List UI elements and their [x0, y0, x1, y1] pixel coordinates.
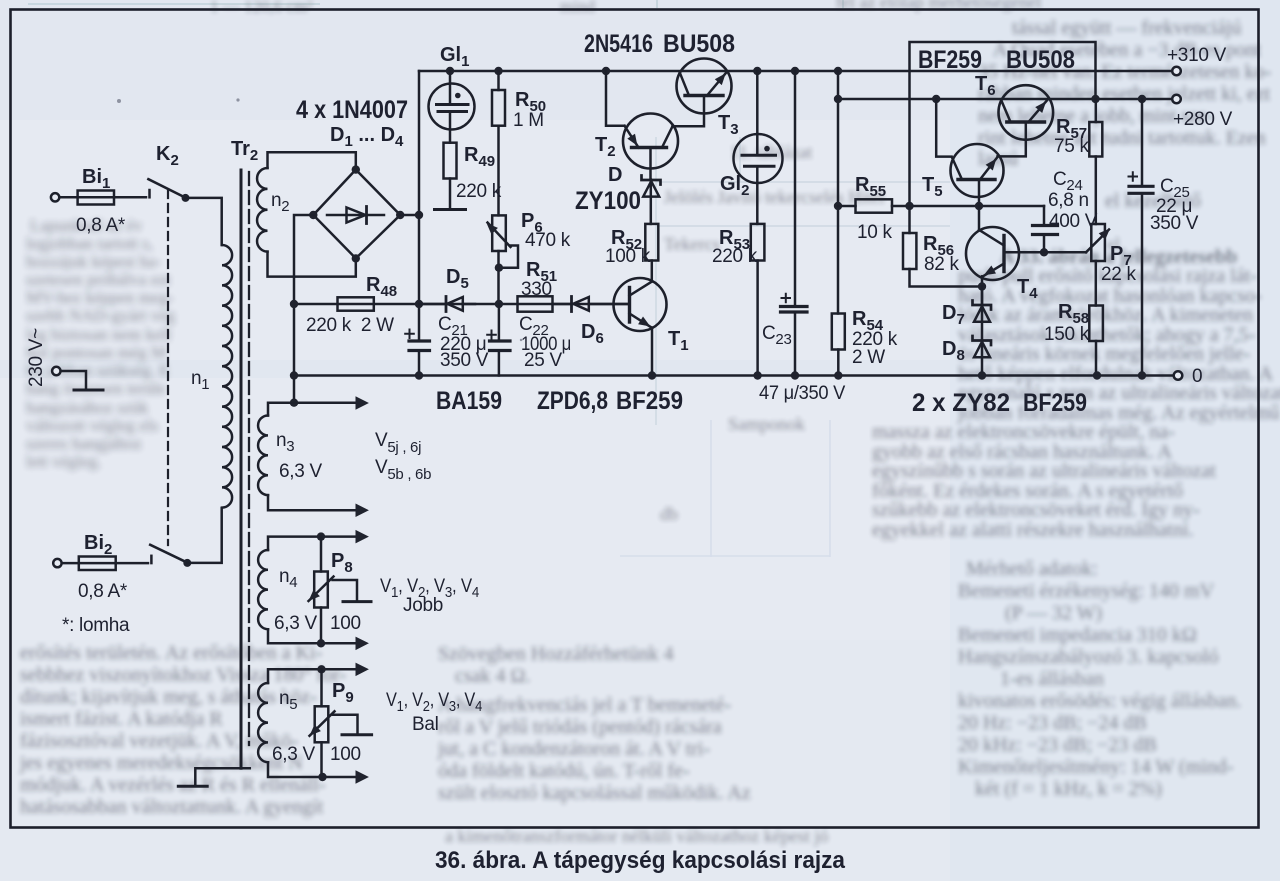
arrow heater 5: [356, 663, 369, 677]
resistor R49: [444, 143, 457, 179]
resistor R51: [518, 296, 553, 311]
terminal +280 V: [1172, 95, 1181, 104]
transformer winding n2: [257, 168, 267, 252]
svg-text:ről a V jelű triódás (pentód): ről a V jelű triódás (pentód) rácsára: [438, 716, 722, 738]
specks: [117, 98, 522, 341]
svg-text:szeres hangjához: szeres hangjához: [26, 434, 142, 453]
svg-text:20 kHz: −23 dB; −23 dB: 20 kHz: −23 dB; −23 dB: [958, 734, 1157, 756]
svg-text:leg biztosan nem kell: leg biztosan nem kell: [26, 325, 171, 344]
svg-text:BU508: BU508: [663, 30, 735, 58]
svg-text:legjobban tartott s,: legjobban tartott s,: [26, 234, 153, 253]
svg-text:2 x ZY82: 2 x ZY82: [912, 389, 1010, 417]
svg-text:BU508: BU508: [1006, 46, 1075, 74]
wire riser x419: [418, 71, 421, 376]
node mid x499: [495, 300, 503, 308]
wire n3 top to arrow: [268, 403, 355, 416]
chassis below R49: [435, 179, 466, 210]
svg-text:400 V: 400 V: [1049, 211, 1098, 232]
svg-text:jut, a C kondenzátoron át. A V: jut, a C kondenzátoron át. A V tri-: [437, 738, 710, 760]
wire n2 top to bridge: [268, 152, 356, 169]
svg-text:változott végleg els: változott végleg els: [26, 416, 158, 435]
svg-text:ZY100: ZY100: [575, 187, 641, 215]
svg-text:Kimenőteljesítmény: 14 W (mind: Kimenőteljesítmény: 14 W (mind-: [958, 756, 1233, 778]
svg-text:220 k 2 W: 220 k 2 W: [306, 315, 394, 336]
svg-text:0,8 A*: 0,8 A*: [76, 215, 126, 236]
svg-text:egyszínűbb s során az ultralin: egyszínűbb s során az ultralineáris vált…: [872, 460, 1216, 482]
wire neutral stub: [61, 371, 103, 390]
svg-text:230 V~: 230 V~: [26, 328, 47, 387]
svg-text:MV-hez képpen meg-: MV-hez képpen meg-: [26, 288, 174, 307]
winding n5: [258, 683, 268, 762]
wire bridge right corner to +rail riser: [400, 211, 423, 219]
resistor R50: [492, 71, 505, 215]
svg-text:a kimenőtranszformátor nélküli: a kimenőtranszformátor nélküli változath…: [445, 826, 828, 846]
svg-text:mind: mind: [560, 0, 595, 16]
arrow heater 1: [356, 396, 369, 410]
node rail x450: [446, 67, 454, 75]
svg-text:6,3 V: 6,3 V: [274, 613, 317, 634]
terminal 0 V: [1174, 371, 1183, 380]
svg-text:350 V: 350 V: [440, 350, 489, 371]
switch K2: [148, 179, 189, 202]
svg-text:0,8 A*: 0,8 A*: [78, 581, 128, 602]
svg-text:6,3 V: 6,3 V: [272, 744, 315, 765]
svg-text:Bal: Bal: [412, 714, 439, 735]
wire n4 top to arrow: [268, 532, 355, 550]
potentiometer P9: [310, 669, 372, 777]
resistor R56: [903, 202, 982, 287]
right column mid text: [872, 190, 1280, 541]
wire n2 bottom to bridge: [268, 252, 356, 277]
svg-text:4 x 1N4007: 4 x 1N4007: [296, 96, 408, 124]
svg-text:Szövegben Hozzáférhetünk: Szövegben Hozzáférhetünk 4: [438, 643, 673, 665]
node rail x795 / capacitor C23: [781, 67, 808, 380]
svg-text:rint lehetne azt tudni tartott: rint lehetne azt tudni tartottuk. Ezen: [978, 127, 1266, 149]
svg-text:ös lineáris körnek megfelelően: ös lineáris körnek megfelelően jelle-: [958, 343, 1250, 365]
resistor R54: [832, 314, 845, 380]
resistor R55: [838, 199, 1044, 212]
potentiometer P7: [1086, 224, 1110, 306]
wire bridge left corner down: [294, 215, 313, 403]
wire n4 bottom to arrow: [268, 629, 355, 647]
transistor T2: [623, 114, 678, 180]
terminal Bi1 input: [51, 193, 59, 201]
svg-text:BF259: BF259: [918, 46, 982, 74]
svg-text:25 V: 25 V: [524, 350, 563, 371]
transformer core solid line: [240, 170, 243, 768]
wire Bi2 switch to n1 bottom: [187, 508, 221, 563]
diode D5: [419, 297, 475, 312]
svg-text:22 k: 22 k: [1101, 264, 1137, 285]
bridge rectifier D1..D4: [309, 165, 404, 262]
svg-text:Jobb: Jobb: [403, 595, 443, 616]
wire Bi1 to K2: [114, 190, 150, 197]
svg-text:+310 V: +310 V: [1167, 45, 1227, 66]
svg-text:szült elosztó kapcsolással műk: szült elosztó kapcsolással működik. Az: [438, 782, 751, 804]
zener D8: [973, 336, 992, 380]
node dots x294: [290, 300, 298, 407]
svg-text:ha jobban szükség. E: ha jobban szükség. E: [26, 361, 170, 380]
svg-text:hol pontosan még M: hol pontosan még M: [26, 343, 166, 362]
zener ZY100: [642, 176, 661, 224]
wire Bi2 to switch: [116, 556, 152, 563]
linkage K2-Bi2 dashed: [167, 190, 169, 545]
svg-text:egyekkel az alatti részekre ha: egyekkel az alatti részekre használhatni…: [872, 519, 1194, 541]
svg-text:lassú: lassú: [978, 148, 1018, 170]
svg-text:150 k: 150 k: [1044, 324, 1090, 345]
potentiometer P6: [487, 215, 519, 304]
svg-text:1 — 120,6 cm²: 1 — 120,6 cm²: [210, 0, 312, 16]
switch Bi2: [150, 545, 191, 567]
node +280 rail x1095.5: [1091, 95, 1099, 103]
wire K2 to n1 top: [186, 198, 222, 245]
svg-text:hangzásához szük: hangzásához szük: [26, 398, 149, 417]
wire n5 top to arrow: [268, 665, 355, 683]
svg-text:1-es állásban: 1-es állásban: [1000, 668, 1104, 690]
wire +280V rail: [838, 98, 1172, 101]
svg-text:D: D: [608, 164, 622, 186]
transformer core dashed line: [248, 172, 250, 745]
transistor T3: [677, 59, 732, 114]
svg-text:db: db: [660, 504, 678, 524]
svg-text:ZPD6,8: ZPD6,8: [537, 387, 608, 415]
resistor R58: [1089, 306, 1103, 380]
svg-text:szetesen próbálva ezt: szetesen próbálva ezt: [26, 270, 171, 289]
svg-text:massza az elektroncsövekre épü: massza az elektroncsövekre épült, na-: [872, 421, 1175, 443]
svg-text:2N5416: 2N5416: [584, 30, 653, 58]
svg-text:*: lomha: *: lomha: [62, 615, 130, 636]
capacitor C25: [1129, 95, 1154, 380]
wire T2 collector to T3 base: [673, 96, 705, 127]
svg-text:hatásosabban változtattunk. A: hatásosabban változtattunk. A gyengít: [20, 796, 324, 818]
arrow heater 3: [356, 530, 369, 544]
tube Gl2: [734, 71, 783, 224]
svg-text:ismert fázist. A katódja R: ismert fázist. A katódja R: [20, 708, 223, 730]
arrow heater 6: [356, 770, 369, 784]
svg-text:330: 330: [521, 279, 552, 300]
wire T4 base to P7 wiper: [1004, 251, 1086, 254]
bottom middle text: [437, 643, 751, 804]
transformer Tr2 winding n1: [222, 245, 232, 508]
svg-text:0: 0: [1192, 366, 1202, 387]
svg-text:erősítés területén. Az erősítő: erősítés területén. Az erősítőben a Ki-: [20, 642, 322, 664]
svg-text:tással együtt — frekvenciájú: tással együtt — frekvenciájú: [1012, 17, 1241, 39]
node dots riser x419: [415, 300, 423, 380]
svg-text:1 M: 1 M: [513, 110, 544, 131]
svg-text:2 W: 2 W: [852, 347, 885, 368]
svg-text:két (f = 1 kHz, k = 2%): két (f = 1 kHz, k = 2%): [975, 778, 1162, 800]
transistor T4: [966, 227, 1019, 304]
left column lower text: [19, 642, 346, 818]
svg-text:óda földelt katódú, ún. T-ről: óda földelt katódú, ún. T-ről fe-: [438, 760, 690, 782]
svg-text:47 μ/350 V: 47 μ/350 V: [759, 383, 846, 404]
ghost line above caption: [445, 826, 828, 846]
svg-text:hozzájuk képest ha-: hozzájuk képest ha-: [26, 252, 161, 271]
wire n3 bottom to arrow: [268, 495, 355, 510]
svg-text:lódik az áramkörökhöz. A kimen: lódik az áramkörökhöz. A kimeneten: [958, 304, 1253, 326]
transistor T1: [614, 278, 667, 380]
transistor T5: [951, 144, 1004, 206]
resistor R57: [1089, 99, 1102, 224]
arrow heater 4: [356, 637, 369, 651]
svg-text:Samponok: Samponok: [728, 414, 805, 434]
svg-text:6,8 n: 6,8 n: [1048, 190, 1089, 211]
wire +310V top rail: [419, 70, 1172, 73]
box BF259 BU508: [910, 42, 1096, 233]
bottom middle faint table: [620, 420, 830, 557]
terminal 230V input: [52, 367, 60, 375]
right column upper text: [978, 17, 1271, 170]
svg-text:(P — 32 W): (P — 32 W): [1005, 602, 1102, 624]
svg-text:36. ábra. A tápegység kapcsolá: 36. ábra. A tápegység kapcsolási rajza: [435, 847, 846, 874]
circuit layer: [51, 42, 1182, 786]
arrow heater 2: [356, 504, 369, 518]
terminal +310 V: [1172, 67, 1181, 76]
svg-text:csak 4 Ω.: csak 4 Ω.: [455, 665, 530, 687]
svg-text:dítunk; kijavítjuk meg, s átha: dítunk; kijavítjuk meg, s áthatás köz-: [20, 686, 317, 708]
svg-text:BF259: BF259: [616, 387, 683, 415]
svg-text:Hangszínszabályozó 3. kapcso: Hangszínszabályozó 3. kapcsoló: [958, 646, 1218, 668]
terminal Bi2 input: [53, 559, 61, 567]
svg-text:szűkebb az elektroncsöveket ér: szűkebb az elektroncsöveket érd. Így ny-: [872, 498, 1200, 521]
svg-text:+280 V: +280 V: [1173, 109, 1233, 130]
wire n5 bottom to arrow: [268, 762, 355, 781]
svg-text:100: 100: [330, 744, 361, 765]
svg-text:kivonatos erősödés: végig állá: kivonatos erősödés: végig állásban.: [958, 690, 1241, 712]
svg-text:220 k: 220 k: [712, 246, 758, 267]
svg-text:fázisosztóval vezetjük. A V, m: fázisosztóval vezetjük. A V, műkö-: [20, 730, 298, 752]
svg-text:jes egyenes meredekségcsökkent: jes egyenes meredekségcsökkent N: [19, 752, 303, 774]
ground transformer core: [178, 768, 250, 786]
svg-text:lett végleg.: lett végleg.: [26, 452, 102, 471]
middle faint table: [656, 137, 950, 425]
svg-text:BF259: BF259: [1023, 389, 1087, 417]
svg-text:350 V: 350 V: [1150, 213, 1199, 234]
wire T2 emitter riser x606: [602, 67, 625, 126]
left column upper text (very blurry): [26, 216, 176, 471]
svg-text:szebb NAD-gyárt vég: szebb NAD-gyárt vég: [26, 306, 176, 325]
node rail x838: [834, 67, 842, 314]
resistor R48: [338, 297, 374, 310]
wire middle rail: [294, 303, 630, 306]
svg-text:10 k: 10 k: [857, 222, 893, 243]
svg-text:11. táblázat: 11. táblázat: [730, 142, 812, 162]
svg-text:220 k: 220 k: [456, 181, 502, 202]
right column lower text: [958, 558, 1241, 800]
capacitor C22: [487, 304, 510, 376]
top table lines: [28, 0, 843, 8]
resistor R52: [645, 224, 658, 282]
svg-text:75 k: 75 k: [1054, 136, 1090, 157]
svg-text:Jelölés Javító tekercselé: Jelölés Javító tekercselés Hitel: [664, 187, 884, 207]
node T5 base: [975, 202, 983, 230]
svg-text:Mérhető adatok:: Mérhető adatok:: [966, 558, 1098, 580]
resistor R53: [751, 224, 765, 380]
svg-text:Bemeneti érzékenység: 140 mV: Bemeneti érzékenység: 140 mV: [958, 580, 1215, 602]
svg-text:BA159: BA159: [436, 387, 502, 415]
svg-text:Bemeneti impedancia 310 kΩ: Bemeneti impedancia 310 kΩ: [958, 624, 1197, 646]
transistor T6: [998, 85, 1054, 156]
capacitor C24: [1033, 206, 1058, 257]
diode D6: [553, 297, 630, 312]
winding n4: [258, 550, 268, 629]
svg-text:sebbhez viszonyítokhoz Vissza: sebbhez viszonyítokhoz Vissza 180° for-: [20, 664, 346, 686]
svg-text:6,3 V: 6,3 V: [279, 461, 322, 482]
zener D7: [973, 287, 992, 376]
svg-text:82 k: 82 k: [924, 254, 960, 275]
potentiometer P8: [309, 537, 372, 644]
wire T5 collector feed: [932, 95, 952, 157]
svg-text:100: 100: [330, 613, 361, 634]
tube Gl1: [429, 71, 475, 143]
node rail x757: [753, 67, 761, 75]
svg-text:470 k: 470 k: [525, 230, 571, 251]
winding n3: [258, 416, 268, 496]
svg-text:100 k: 100 k: [605, 246, 651, 267]
svg-text:20 Hz: −23 dB; −24 dB: 20 Hz: −23 dB; −24 dB: [958, 712, 1147, 734]
node rail x498.5: [494, 67, 502, 75]
wire bottom 0V rail: [294, 374, 1173, 377]
fuse Bi2: [62, 557, 116, 571]
capacitor C21: [405, 304, 429, 351]
fuse Bi1: [60, 191, 115, 205]
